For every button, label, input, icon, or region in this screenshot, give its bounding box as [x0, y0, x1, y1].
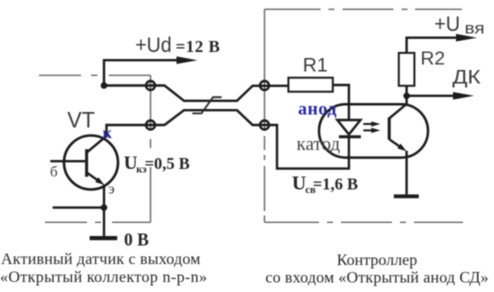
svg-text:0 В: 0 В: [124, 230, 149, 250]
svg-text:б: б: [50, 164, 58, 180]
svg-text:=12 В: =12 В: [176, 37, 221, 56]
svg-text:=1,6 В: =1,6 В: [313, 174, 358, 193]
svg-text:Контроллер: Контроллер: [337, 252, 417, 269]
svg-text:катод: катод: [297, 134, 341, 155]
svg-text:«Открытый коллектор n-p-n»: «Открытый коллектор n-p-n»: [0, 269, 207, 286]
svg-text:вя: вя: [465, 20, 485, 37]
svg-text:R1: R1: [303, 55, 328, 77]
svg-text:+U: +U: [434, 13, 460, 36]
svg-text:Активный датчик с выходом: Активный датчик с выходом: [1, 251, 201, 268]
svg-text:ДК: ДК: [452, 66, 481, 88]
svg-text:э: э: [108, 182, 114, 198]
svg-text:анод: анод: [298, 98, 337, 118]
svg-text:R2: R2: [421, 49, 446, 69]
svg-text:+Ud: +Ud: [135, 34, 172, 57]
svg-text:со входом «Открытый анод СД»: со входом «Открытый анод СД»: [265, 270, 488, 287]
svg-text:=0,5 В: =0,5 В: [145, 154, 190, 173]
svg-text:к: к: [103, 125, 113, 142]
svg-text:U: U: [292, 173, 306, 194]
svg-text:VT: VT: [67, 108, 95, 133]
